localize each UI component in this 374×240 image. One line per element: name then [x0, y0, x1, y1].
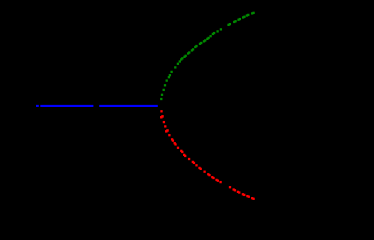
node lower red dotted branch: [160, 110, 255, 200]
wire blue stable-branch dashed line: [36, 105, 158, 107]
node upper green dotted branch: [160, 12, 255, 100]
